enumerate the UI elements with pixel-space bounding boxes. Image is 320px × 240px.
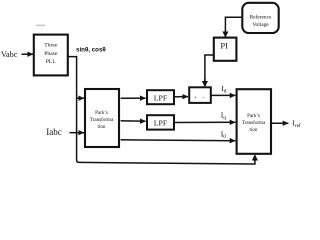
svg-text:Transforma: Transforma <box>90 116 114 123</box>
svg-text:LPF: LPF <box>154 119 168 128</box>
wire Park1 to LPF2 <box>121 120 146 123</box>
Park1 block <box>85 89 119 147</box>
svg-text:d: d <box>224 89 227 95</box>
svg-text:-: - <box>203 95 205 101</box>
svg-text:ref: ref <box>295 122 301 129</box>
output arrow Iref <box>272 122 288 124</box>
svg-text:Voltage: Voltage <box>252 22 269 28</box>
Vabc arrow <box>22 53 34 55</box>
sum block <box>189 87 211 103</box>
Reference Voltage block <box>242 3 278 33</box>
svg-text:Vabc: Vabc <box>1 50 18 59</box>
sin/cos bus wire: PLL out, down, along bottom, up into Park2 <box>68 57 255 164</box>
wire PI to sum <box>205 55 214 82</box>
svg-text:Park’s: Park’s <box>95 110 108 116</box>
PI block <box>214 38 237 61</box>
svg-text:q: q <box>223 115 226 121</box>
svg-text:tion: tion <box>98 124 106 130</box>
svg-text:Transforma: Transforma <box>242 119 266 126</box>
wire sum to Park2 (Id) <box>211 94 235 96</box>
svg-text:Park’s: Park’s <box>247 113 260 119</box>
svg-text:Iabc: Iabc <box>46 127 62 137</box>
wire Park1 to LPF1 <box>121 97 146 99</box>
wire RefV to PI <box>225 17 242 34</box>
svg-text:0: 0 <box>223 134 226 140</box>
scan artifact dash above PLL box <box>36 25 45 27</box>
Iabc arrow <box>70 132 85 134</box>
LPF1 block <box>147 90 174 104</box>
up arrow into Park2 bottom <box>254 155 256 161</box>
PLL block <box>34 35 68 76</box>
svg-text:Phase: Phase <box>44 51 58 57</box>
svg-text:Three: Three <box>44 43 58 49</box>
LPF2 block <box>147 115 174 129</box>
svg-text:+: + <box>194 95 197 101</box>
svg-text:sinθ, cosθ: sinθ, cosθ <box>76 47 106 54</box>
wire LPF2 to Park2 <box>175 121 236 123</box>
svg-text:PI: PI <box>220 41 228 51</box>
Park2 block <box>237 89 271 154</box>
svg-text:Reference: Reference <box>250 13 272 20</box>
svg-text:PLL: PLL <box>46 59 57 65</box>
svg-text:LPF: LPF <box>154 93 168 102</box>
branch arrow into Park1 <box>77 97 84 99</box>
wire LPF1 to sum <box>175 96 189 98</box>
svg-text:tion: tion <box>250 127 258 133</box>
wire Park1 to Park2 (I0) <box>121 139 236 142</box>
